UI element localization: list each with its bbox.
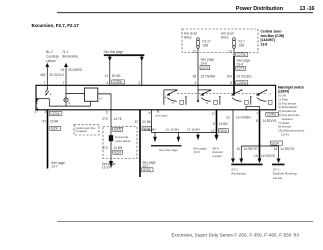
svg-text:Excursion, F2.7, F2.17: Excursion, F2.7, F2.17 [32, 23, 80, 28]
svg-text:12: 12 [211, 129, 215, 133]
svg-text:Lamps: Lamps [273, 176, 283, 180]
svg-text:13-41: 13-41 [281, 133, 289, 137]
svg-text:15: 15 [236, 147, 240, 151]
svg-text:13-7: 13-7 [51, 164, 58, 168]
svg-text:462: 462 [40, 73, 46, 77]
svg-text:Power Distribution: Power Distribution [236, 6, 283, 12]
svg-text:relay diode: relay diode [115, 139, 130, 143]
svg-text:1: 1 [257, 111, 259, 115]
svg-text:25 LB/RD: 25 LB/RD [68, 68, 83, 72]
svg-text:12: 12 [228, 50, 232, 54]
svg-text:71-1: 71-1 [62, 50, 69, 54]
svg-text:S224: S224 [114, 151, 122, 155]
svg-text:16: 16 [254, 154, 258, 158]
svg-text:S206: S206 [219, 129, 227, 133]
svg-text:13-8: 13-8 [201, 61, 208, 65]
svg-text:13-10: 13-10 [102, 166, 110, 170]
svg-text:14 RD/YE: 14 RD/YE [243, 147, 257, 151]
svg-text:mination: mination [76, 129, 88, 133]
svg-text:1: 1 [50, 92, 52, 96]
svg-text:S205: S205 [114, 128, 122, 132]
svg-text:[14A067]: [14A067] [261, 38, 275, 42]
svg-text:16 BN: 16 BN [191, 127, 200, 131]
svg-text:14 OG/DG: 14 OG/DG [237, 75, 253, 79]
svg-text:not used: not used [156, 113, 168, 117]
svg-text:4: 4 [165, 95, 167, 99]
svg-text:15: 15 [166, 127, 170, 131]
svg-text:18: 18 [274, 147, 278, 151]
svg-text:7: 7 [44, 81, 46, 85]
svg-text:C274: C274 [237, 67, 245, 71]
svg-text:13-8: 13-8 [261, 43, 268, 47]
svg-text:13: 13 [226, 115, 230, 119]
svg-text:16 BN: 16 BN [170, 127, 179, 131]
svg-text:16 BN: 16 BN [219, 122, 229, 126]
svg-text:2: 2 [138, 81, 140, 85]
svg-text:9: 9 [206, 101, 208, 105]
svg-text:4: 4 [68, 101, 70, 105]
svg-text:times: times [221, 35, 229, 39]
svg-text:12: 12 [192, 50, 196, 54]
svg-text:15A: 15A [239, 43, 246, 47]
svg-text:8: 8 [144, 127, 146, 131]
svg-text:See this page: See this page [104, 50, 124, 54]
svg-text:Central Junc-: Central Junc- [261, 29, 283, 33]
svg-text:7: 7 [63, 81, 65, 85]
svg-text:5: 5 [230, 81, 232, 85]
svg-text:57: 57 [135, 120, 139, 124]
svg-text:3: 3 [35, 110, 37, 114]
svg-text:4: 4 [194, 81, 196, 85]
svg-text:14 YE: 14 YE [113, 117, 122, 121]
svg-text:times: times [184, 35, 192, 39]
svg-text:56: 56 [193, 75, 197, 79]
svg-text:Lamps: Lamps [213, 154, 223, 158]
svg-text:See this page: See this page [159, 148, 178, 152]
svg-text:C205a: C205a [267, 113, 277, 117]
svg-text:6: 6 [106, 111, 108, 115]
svg-text:4: 4 [44, 110, 46, 114]
svg-text:Illumination: Illumination [62, 55, 78, 59]
svg-text:C220b: C220b [113, 80, 123, 84]
svg-text:14 OG/BH: 14 OG/BH [236, 115, 251, 119]
svg-text:270: 270 [102, 117, 108, 121]
svg-text:14 BN: 14 BN [113, 146, 123, 150]
svg-text:tion Box (CJB): tion Box (CJB) [261, 34, 285, 38]
svg-text:15A: 15A [203, 43, 210, 47]
svg-text:5: 5 [172, 101, 174, 105]
svg-text:C272: C272 [201, 66, 209, 70]
svg-text:4: 4 [106, 81, 108, 85]
svg-text:Excursion, Super Duty Series F: Excursion, Super Duty Series F-250, F-35… [171, 233, 299, 238]
svg-text:270: 270 [102, 146, 108, 150]
svg-text:C220b: C220b [50, 112, 60, 116]
svg-text:19: 19 [61, 68, 65, 72]
svg-text:13 -16: 13 -16 [299, 6, 314, 12]
svg-text:14 RD/YE: 14 RD/YE [280, 147, 294, 151]
svg-text:14 RD/YE: 14 RD/YE [263, 119, 277, 123]
svg-text:57: 57 [42, 119, 46, 123]
svg-text:16 TN/WH: 16 TN/WH [201, 75, 217, 79]
svg-text:Courtesy: Courtesy [46, 55, 59, 59]
svg-text:7: 7 [270, 92, 272, 96]
svg-text:17: 17 [99, 97, 103, 101]
svg-text:13-8: 13-8 [193, 150, 199, 154]
svg-text:Lamps: Lamps [46, 59, 56, 63]
svg-text:14 RD/YE: 14 RD/YE [261, 154, 275, 158]
svg-text:14: 14 [105, 74, 109, 78]
svg-text:50 BK: 50 BK [112, 74, 122, 78]
svg-text:8: 8 [256, 119, 258, 123]
svg-text:S234: S234 [271, 141, 279, 145]
svg-text:194: 194 [226, 75, 232, 79]
svg-text:13: 13 [187, 127, 191, 131]
svg-text:S200: S200 [51, 127, 59, 131]
svg-text:20 BK: 20 BK [50, 119, 60, 123]
svg-text:9: 9 [213, 122, 215, 126]
svg-text:C270b: C270b [237, 53, 247, 57]
svg-text:20 OG/LG: 20 OG/LG [49, 73, 64, 77]
svg-text:8: 8 [149, 111, 151, 115]
svg-text:16 BN: 16 BN [147, 127, 156, 131]
svg-text:20 BK: 20 BK [142, 120, 152, 124]
svg-text:12: 12 [211, 111, 215, 115]
svg-text:C220a: C220a [237, 81, 247, 85]
svg-text:BL-2: BL-2 [46, 50, 53, 54]
svg-text:G202: G202 [143, 168, 151, 172]
svg-text:Autolamps: Autolamps [231, 172, 246, 176]
